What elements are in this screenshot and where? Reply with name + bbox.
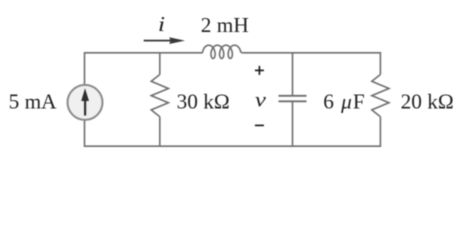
wire inductor right stub <box>241 52 244 54</box>
wire capacitor top drop <box>292 53 294 96</box>
inductor L1 2 mH coil <box>203 45 241 58</box>
wire capacitor bottom <box>292 102 294 147</box>
svg-text:2 mH: 2 mH <box>201 13 249 37</box>
current arrow i <box>144 37 185 44</box>
svg-text:30 kΩ: 30 kΩ <box>177 89 230 113</box>
wire top (node a) <box>85 53 203 85</box>
svg-text:v: v <box>255 88 267 111</box>
resistor R1 30 kOhm zigzag <box>151 75 168 117</box>
label + (capacitor polarity) <box>255 66 264 75</box>
current source arrow <box>81 88 89 115</box>
svg-text:i: i <box>158 13 165 36</box>
svg-text:20 kΩ: 20 kΩ <box>401 89 454 113</box>
wire 30k bottom <box>159 117 161 147</box>
current source I1 5 mA <box>68 85 103 120</box>
wire bottom (node b) <box>85 117 381 147</box>
resistor R2 20 kOhm zigzag <box>372 75 389 117</box>
svg-text:6 μF: 6 μF <box>323 89 366 113</box>
wire 30k top drop <box>159 53 161 75</box>
label - (capacitor polarity) <box>255 124 264 126</box>
wire top-right <box>244 53 381 75</box>
svg-text:5 mA: 5 mA <box>9 89 58 113</box>
capacitor C1 plates <box>279 96 307 102</box>
